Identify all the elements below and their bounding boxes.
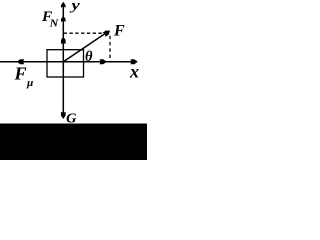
wire: x-axis horizontal line	[0, 61, 136, 63]
arrowhead F x-component (right)	[99, 59, 106, 64]
svg-text:μ: μ	[26, 77, 33, 89]
arrowhead F (up-right at ~34deg)	[103, 29, 112, 37]
block (box) on surface	[47, 50, 84, 77]
arrowhead y-axis (up)	[61, 2, 66, 8]
svg-text:F: F	[113, 23, 125, 40]
svg-text:x: x	[129, 62, 139, 82]
arrowhead x-axis (right)	[130, 59, 138, 64]
wire: y-axis vertical line	[62, 4, 64, 116]
arrowhead F_mu (left)	[17, 59, 25, 64]
svg-text:N: N	[49, 18, 60, 30]
black band at bottom	[0, 124, 147, 161]
dashed projection vertical (F cos abscissa)	[109, 36, 111, 62]
arrowhead G (down)	[61, 112, 66, 119]
svg-text:F: F	[14, 64, 27, 84]
dashed projection horizontal (F sin level)	[64, 32, 103, 34]
svg-text:θ: θ	[85, 49, 93, 65]
force F vector line	[63, 33, 106, 62]
arrowhead F_N (up)	[61, 16, 66, 22]
svg-text:y: y	[69, 0, 81, 13]
arrowhead F y-component (up)	[61, 37, 66, 45]
